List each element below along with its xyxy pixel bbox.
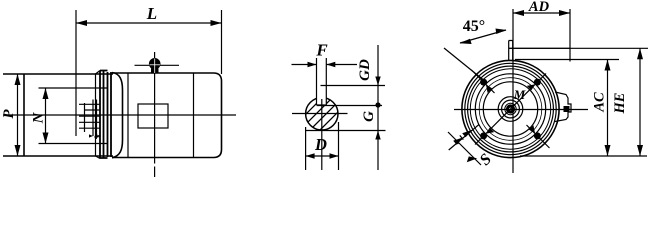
shaft center [506,104,515,113]
centerlines end view [512,9,514,173]
hatching [284,64,366,146]
hub circles [498,97,523,122]
dimension S leader [448,125,481,166]
terminal box bottom line / AC extension [515,59,619,61]
dimension HE [639,48,641,156]
dimension P [17,74,19,156]
N cylinder silhouette bottom [39,143,109,145]
svg-text:D: D [314,135,327,154]
shaft detail small arrow [95,134,97,140]
svg-text:AC: AC [592,92,608,113]
left housing box (P body) [3,74,113,156]
eyebolt [149,58,161,70]
M dimension diagonal segments NW-SE [472,70,550,148]
bolt pitch circle [479,78,542,141]
key top line / GD extension [321,85,386,87]
horizontal centerline left view [3,114,236,116]
outer frame circles [462,60,559,157]
base line [520,155,647,157]
flange disc verticals [100,71,111,159]
dimension L [76,10,222,136]
shaft circle [306,98,338,130]
N cylinder silhouette top [39,87,109,89]
dimension AC [607,60,609,157]
keyway flat extension [317,105,383,107]
bell end-bracket curve [112,73,123,158]
svg-text:F: F [315,41,328,60]
svg-text:45°: 45° [463,18,485,35]
shaft detail ladder [79,100,100,137]
shaft bottom extension [306,130,386,132]
dimension N [45,88,47,144]
svg-text:L: L [146,4,157,23]
nameplate [138,104,168,128]
svg-text:GD: GD [357,59,373,81]
keyway sides [317,58,327,105]
shaft detail arrowheads [94,133,98,138]
motor main body [112,73,222,158]
frame joint line right [193,73,195,158]
flange bolt holes [480,79,487,86]
dimension D [306,122,339,170]
svg-text:G: G [361,111,377,122]
svg-text:M: M [513,87,526,102]
M dimension diagonal line NE-SW [475,74,546,145]
dimension GD [377,45,379,86]
45 degree arc with arrows [460,30,506,43]
dimension G [377,105,379,170]
side lug on right of frame [555,92,571,122]
frame joint line left [127,73,129,158]
45 degree reference diagonal [444,48,486,82]
svg-text:HE: HE [612,92,628,114]
dimension F [292,64,358,66]
svg-text:P: P [1,109,17,119]
M arrowheads at holes [527,84,536,90]
flange circle [475,74,545,144]
terminal box top line / HE extension [509,47,648,49]
keyway key (white) [317,86,327,106]
spigot circle [483,82,537,136]
vertical centerline main body [154,52,156,177]
svg-text:AD: AD [528,0,550,15]
terminal box top [509,41,570,62]
svg-text:N: N [31,111,47,124]
chamfer top-left of flange [96,71,101,159]
shaft centerlines [292,113,348,115]
dimension AD [569,9,571,48]
